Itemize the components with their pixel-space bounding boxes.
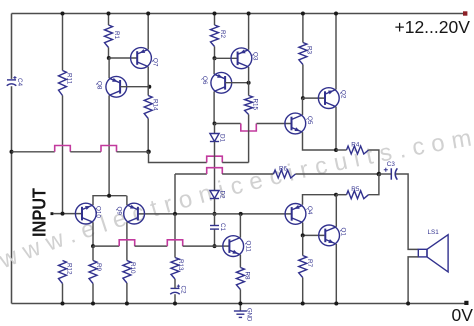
capacitor C4 (7, 79, 16, 81)
transistor Q7 (131, 48, 152, 69)
wire Q6 emitter up (213, 58, 215, 74)
wire mid row Q9 base to Q4 base (138, 213, 292, 215)
transistor Q2 (318, 88, 339, 109)
svg-text:C3: C3 (387, 161, 396, 168)
wire row C crossover x=214 (207, 168, 223, 174)
wire R13 to C2 (174, 279, 176, 288)
resistor R7 (299, 256, 307, 278)
wire row A segment 3 (117, 151, 149, 153)
svg-text:R10: R10 (129, 262, 136, 274)
svg-text:LS1: LS1 (428, 229, 440, 236)
wire Q1 collector up (335, 195, 337, 227)
svg-text:R15: R15 (252, 99, 259, 111)
wire R8 bottom (239, 290, 241, 304)
resistor R8 (236, 268, 244, 290)
wire Q7 base (109, 57, 137, 59)
svg-text:R8: R8 (244, 272, 251, 281)
wire row C segment 1 (175, 173, 207, 175)
wire row C segment 2 (222, 173, 273, 175)
svg-text:R6: R6 (279, 166, 288, 173)
svg-text:R11: R11 (65, 73, 72, 85)
transistor Q8 (106, 76, 127, 97)
node rail x=108 (107, 12, 111, 16)
wire C3 to speaker (396, 174, 419, 249)
node 0V terminal (464, 301, 468, 305)
wire Q8 collector down (108, 95, 110, 195)
transistor Q9 (124, 203, 145, 224)
wire Q11 emitter down (239, 255, 241, 268)
resistor R2 (211, 25, 219, 47)
svg-text:Q6: Q6 (201, 76, 208, 85)
resistor R13 (171, 258, 179, 280)
wire Q10 emitter up (93, 196, 127, 205)
wire D1 to D2 (214, 142, 216, 191)
resistor R3 (299, 43, 307, 65)
resistor R6 (274, 170, 296, 178)
svg-text:R7: R7 (306, 259, 313, 268)
transistor Q3 (231, 48, 252, 69)
node R4 left junction (334, 148, 338, 152)
resistor R14 (144, 96, 152, 119)
node bottom rail x=126 (125, 302, 129, 306)
wire row D to Q11 base (215, 245, 230, 247)
svg-text:Q8: Q8 (96, 81, 103, 90)
resistor R12 (59, 261, 67, 284)
wire R13 top (174, 214, 176, 258)
transistor Q6 (211, 72, 232, 93)
wire Q8 base to node (120, 86, 149, 88)
wire R4 right (369, 150, 379, 174)
wire Q9 emitter up (126, 196, 128, 205)
capacitor C1 (210, 225, 219, 227)
wire R2 top (214, 14, 216, 26)
wire R4 left (336, 149, 347, 151)
wire bottom 0V rail (12, 303, 468, 305)
wire Q6 base to node (225, 82, 249, 84)
wire D1 top (214, 124, 216, 134)
svg-text:C2: C2 (180, 286, 187, 295)
resistor R9 (89, 261, 97, 284)
node Q8 base junction (147, 85, 151, 89)
wire R7 top (302, 235, 304, 255)
wire D2 bottom (214, 199, 216, 214)
svg-text:R4: R4 (351, 142, 360, 149)
svg-text:0V: 0V (452, 305, 474, 325)
wire R1 top (108, 14, 110, 26)
wire Q10 collector down (92, 222, 94, 246)
resistor R11 (59, 71, 67, 96)
wire row B crossover x=214 (207, 156, 223, 162)
wire left column x=11 lower (11, 86, 13, 303)
wire Q2 emitter to rail (335, 14, 337, 90)
wire R15 top (248, 83, 250, 96)
ground (239, 304, 241, 311)
wire Q7 collector down (147, 67, 149, 96)
node mid row x=174.5 (173, 212, 177, 216)
wire row D crossover x=174 (167, 240, 182, 246)
wire Q8 emitter up (108, 58, 110, 78)
wire Q6 collector down (213, 91, 215, 123)
wire Q5 base row crossover x=248 (241, 124, 256, 132)
wire R3 bottom (302, 65, 304, 99)
svg-text:Q4: Q4 (306, 206, 313, 215)
wire Q4 emitter down (303, 223, 325, 236)
svg-text:R9: R9 (95, 263, 102, 272)
diode D2 (210, 191, 219, 199)
svg-text:R2: R2 (219, 30, 226, 39)
node rail x=214 (213, 12, 217, 16)
node bottom rail x=62 (61, 302, 65, 306)
svg-text:Q11: Q11 (244, 241, 251, 253)
transistor Q4 (285, 204, 306, 225)
svg-text:R14: R14 (151, 99, 158, 111)
resistor R5 (347, 191, 369, 199)
svg-text:INPUT: INPUT (30, 188, 50, 237)
wire C2 bottom (174, 294, 176, 303)
wire R9 top (92, 246, 94, 260)
wire R15 bottom (248, 115, 250, 163)
wire C1 bottom (214, 230, 216, 247)
wire row D segment 3 (183, 245, 215, 247)
svg-text:GND: GND (245, 308, 251, 322)
node bottom rail x=335 (334, 302, 338, 306)
node rail x=335 (334, 12, 338, 16)
wire R2 bottom (214, 47, 216, 59)
wire R14 bottom (147, 119, 149, 152)
svg-text:+12...20V: +12...20V (395, 17, 471, 37)
node rail x=148 (146, 12, 150, 16)
transistor Q11 (223, 236, 244, 257)
wire R10 bottom (126, 283, 128, 304)
svg-text:Q10: Q10 (95, 206, 102, 218)
wire R3 top (302, 14, 304, 43)
wire input to Q10 base (53, 213, 82, 215)
wire Q5 base row segment 1 (215, 123, 241, 125)
transistor Q5 (285, 113, 306, 134)
wire left column x=11 upper (11, 14, 13, 79)
wire R1 bottom to node (108, 48, 110, 59)
node input junction x=62 (61, 212, 65, 216)
wire Q4 collector up (303, 195, 337, 205)
svg-text:R3: R3 (306, 46, 313, 55)
node row D left junction (91, 244, 95, 248)
wire row A crossover x=62 (55, 146, 71, 152)
wire top +V rail (12, 13, 466, 15)
transistor Q1 (319, 225, 340, 246)
wire row C segment 3 (296, 173, 379, 175)
wire row D crossover x=126 (119, 240, 135, 246)
wire C1 top (214, 214, 216, 225)
svg-text:R1: R1 (113, 31, 120, 40)
wire Q2 base (303, 97, 324, 99)
wire Q11 collector up (239, 214, 241, 238)
svg-text:Q1: Q1 (339, 228, 346, 237)
wire Q1 emitter down (335, 244, 337, 304)
node bottom rail x=240 (238, 302, 242, 306)
wire Q9 collector down (126, 222, 128, 260)
node rail x=62 (61, 12, 65, 16)
svg-text:C1: C1 (219, 223, 226, 232)
capacitor C2 (171, 287, 180, 289)
node bottom rail x=302 (301, 302, 305, 306)
transistor Q10 (75, 203, 96, 224)
node Q7 base junction (107, 56, 111, 60)
resistor R15 (245, 96, 253, 115)
svg-text:Q9: Q9 (115, 207, 122, 216)
node Q2 base junction (301, 96, 305, 100)
svg-text:R5: R5 (351, 186, 360, 193)
node Q6 base junction (247, 81, 251, 85)
wire row B drop (149, 152, 207, 163)
node R14 bottom junction (146, 150, 151, 155)
speaker LS1 (418, 249, 427, 257)
svg-text:D1: D1 (218, 134, 225, 143)
wire row A crossover x=108 (101, 146, 117, 152)
node bottom rail x=92 (91, 302, 95, 306)
wire Q3 emitter to rail (248, 14, 250, 50)
wire R5 right (369, 174, 379, 195)
svg-text:R12: R12 (65, 263, 72, 275)
wire R9 bottom (92, 284, 94, 304)
node C1 bottom junction (213, 244, 217, 248)
node rail x=248 (247, 12, 251, 16)
wire R5 left (336, 194, 347, 196)
node C3 left junction (377, 172, 382, 177)
svg-text:D2: D2 (218, 191, 225, 200)
wire C3 left stub (379, 173, 391, 175)
node bottom rail x=174 (173, 302, 177, 306)
wire Q5 collector up (302, 98, 304, 115)
wire row A segment 2 (70, 151, 101, 153)
wire Q7 emitter to rail (147, 14, 149, 50)
svg-text:C4: C4 (16, 78, 23, 87)
node bottom rail x=407 (406, 302, 410, 306)
wire R12 bottom (62, 284, 64, 304)
wire row C left drop (174, 174, 176, 214)
resistor R10 (123, 261, 131, 284)
svg-text:Q7: Q7 (151, 58, 158, 67)
node rail x=302 (301, 12, 305, 16)
svg-text:Q5: Q5 (306, 116, 313, 125)
svg-text:Q3: Q3 (251, 52, 258, 61)
svg-text:R13: R13 (177, 259, 184, 271)
node R7 top junction (301, 233, 305, 237)
node left rail junction (10, 150, 14, 154)
svg-text:Q2: Q2 (339, 90, 346, 99)
wire row B segment 2 (222, 162, 248, 164)
node mid row x=240 (239, 212, 243, 216)
wire Q3 base (215, 57, 238, 59)
wire row A segment 1 (12, 151, 55, 153)
node emitter rail junction (107, 194, 111, 198)
resistor R4 (347, 146, 369, 154)
node +V terminal (463, 11, 467, 15)
resistor R1 (105, 25, 113, 48)
wire speaker bottom (408, 257, 418, 304)
node Q3 base junction (213, 56, 217, 60)
wire R7 bottom (302, 278, 304, 304)
node R5 left junction (334, 193, 338, 197)
wire row D segment 1 (93, 245, 119, 247)
capacitor C3 (390, 168, 392, 179)
wire Q3 collector down (248, 67, 250, 83)
wire R11 column top (62, 14, 64, 71)
wire R11-R12 column (62, 96, 64, 214)
node input terminal (51, 212, 54, 215)
wire Q5 emitter down (303, 132, 337, 150)
node C1 top junction (213, 212, 217, 216)
wire Q2 collector down (335, 107, 337, 150)
diode D1 (210, 134, 219, 142)
wire row D segment 2 (135, 245, 168, 247)
wire Q5 base row segment 2 (257, 123, 292, 125)
node D1 top junction (213, 122, 217, 126)
